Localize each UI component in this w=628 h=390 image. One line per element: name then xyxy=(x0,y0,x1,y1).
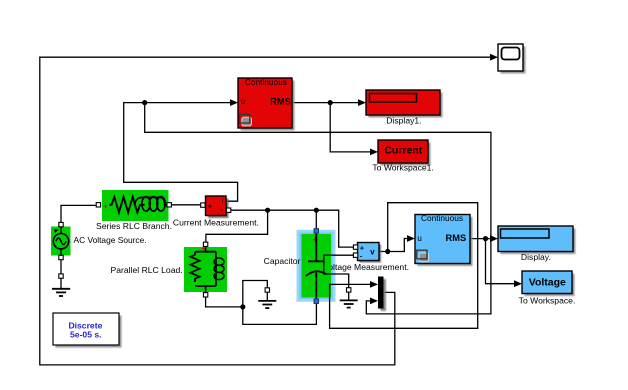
port: ground G3 top xyxy=(59,274,63,278)
svg-text:To Workspace.: To Workspace. xyxy=(519,296,576,306)
svg-text:Capacitor: Capacitor xyxy=(264,256,301,266)
port: Capacitor top (selected navy) xyxy=(314,229,318,233)
svg-text:+: + xyxy=(312,235,318,246)
svg-text:Current Measurement.: Current Measurement. xyxy=(173,217,259,227)
svg-text:u: u xyxy=(417,234,421,243)
arrow: into Display xyxy=(490,235,498,242)
wire: Current Measurement i output up-left to red RMS u input xyxy=(124,103,238,202)
port: Parallel RLC Load bottom xyxy=(203,293,207,297)
svg-text:Parallel RLC Load.: Parallel RLC Load. xyxy=(111,265,183,275)
svg-text:AC Voltage Source.: AC Voltage Source. xyxy=(74,235,147,245)
mux MUX1 (black bar) xyxy=(378,277,386,312)
svg-text:To Workspace1.: To Workspace1. xyxy=(372,162,433,172)
arrow: into Current xyxy=(370,149,378,156)
svg-text:Continuous: Continuous xyxy=(421,213,463,223)
wire: junction J4 branch down to Current To-Workspace xyxy=(330,103,371,152)
port: Series RLC Branch right xyxy=(167,203,171,207)
svg-text:Voltage: Voltage xyxy=(529,277,566,289)
wire: junction J6 branch down to Voltage To-Workspace xyxy=(486,239,515,284)
ground G3 (below AC Voltage Source) xyxy=(52,278,70,296)
capacitor C1 (green block, selected) xyxy=(264,233,331,299)
port: Series RLC Branch left xyxy=(96,203,100,207)
junction J3 (current signal split) xyxy=(142,100,147,105)
block: Display (blue display) xyxy=(498,226,576,262)
sensor: Current Measurement (red block) xyxy=(173,196,259,227)
port: AC source + (top) xyxy=(59,222,63,226)
wire: mux output to Scope (long loop left-bottom-top) xyxy=(40,57,491,365)
port: ground G1 top xyxy=(265,288,269,292)
sensor: Voltage Measurement block (blue) xyxy=(358,243,382,263)
block U2: blue discrete RMS (Continuous) xyxy=(415,213,473,266)
port: Parallel RLC Load top xyxy=(203,242,207,246)
port: AC source - (bottom) xyxy=(59,255,63,259)
wire: junction J1 branch down-left to Parallel RLC Load top port xyxy=(206,210,268,242)
arrow: into Mux input 1 xyxy=(370,281,378,288)
port: Capacitor bottom (selected navy) xyxy=(314,299,318,303)
svg-text:Display.: Display. xyxy=(521,252,551,262)
svg-text:u: u xyxy=(241,97,245,106)
ground G1 (right of Parallel RLC Load) xyxy=(258,292,276,308)
port: Current Measurement - (right) xyxy=(226,208,230,212)
wire: Series RLC Branch right port to Current Measurement + port xyxy=(171,204,200,206)
svg-text:v: v xyxy=(370,248,375,257)
wire: Current Measurement - port right to Voltage Measurement + port xyxy=(231,210,354,247)
arrow: into Scope xyxy=(490,54,498,61)
block: Display1 (red display) xyxy=(366,90,443,125)
wire: Voltage Measurement - port left-down to ground G2 xyxy=(324,255,354,288)
svg-text:Display1.: Display1. xyxy=(386,115,421,125)
source V1: AC Voltage Source (green) xyxy=(51,227,147,256)
wire: blue RMS output to Display xyxy=(470,238,491,240)
junction J4 (red RMS out split) xyxy=(328,100,333,105)
port: Voltage Measurement - xyxy=(353,253,357,257)
wire: junction J7 down-right to Capacitor bottom port xyxy=(243,303,317,325)
wire: AC source - terminal down to ground G3 xyxy=(60,257,62,274)
arrow: into Voltage xyxy=(514,280,522,287)
block U1: red discrete RMS (Continuous) xyxy=(238,77,295,130)
svg-text:+: + xyxy=(103,200,108,210)
block: powergui Discrete 5e-05 s xyxy=(53,313,122,348)
svg-text:Continuous: Continuous xyxy=(245,77,287,87)
arrow: into red RMS u xyxy=(230,99,238,106)
svg-text:Series RLC Branch.: Series RLC Branch. xyxy=(96,221,172,231)
wire: junction J3 branch down-right-down to Mux input 2 xyxy=(145,103,491,314)
junction J7 (bottom net) xyxy=(240,304,245,309)
arrow: into Mux input 2 xyxy=(370,298,378,305)
port: Current Measurement + (left) xyxy=(201,203,205,207)
junction J2 (capacitor top net) xyxy=(314,208,319,213)
component: Series RLC Branch (green block, R + L) xyxy=(96,190,172,231)
arrow: into Display1 xyxy=(358,99,366,106)
scope block Scope xyxy=(498,44,526,74)
wire: Voltage Measurement v output to blue RMS u input xyxy=(379,239,408,252)
wire: junction J7 up-right to ground G1 xyxy=(243,281,267,307)
wire: red RMS output to Display1 xyxy=(292,102,359,104)
wire: junction J5 v-signal detour loop to Mux input 1 xyxy=(330,203,478,329)
svg-text:5e-05 s.: 5e-05 s. xyxy=(70,329,102,339)
component: Parallel RLC Load (green block, R ∥ L) xyxy=(111,244,227,292)
wire: junction J2 down to Capacitor top port xyxy=(315,210,317,229)
capacitor C1 selection halo xyxy=(297,230,336,302)
svg-text:+: + xyxy=(208,202,213,211)
svg-text:RMS: RMS xyxy=(446,233,467,243)
wire: Parallel RLC Load bottom port to junction J7 xyxy=(206,297,243,307)
port: ground G2 top xyxy=(347,288,351,292)
ground G2 (left of mux) xyxy=(340,292,358,308)
block: Voltage (To Workspace, blue) xyxy=(519,271,576,306)
port: Voltage Measurement + xyxy=(353,245,357,249)
arrow: into blue RMS u xyxy=(407,235,415,242)
block: Current (To Workspace1, red) xyxy=(372,140,433,172)
junction J1 (CM - net / parallel load) xyxy=(265,208,270,213)
svg-text:Voltage Measurement.: Voltage Measurement. xyxy=(323,262,409,272)
svg-text:Current: Current xyxy=(384,145,422,157)
junction J5 (v signal split) xyxy=(385,249,390,254)
svg-text:RMS: RMS xyxy=(270,96,291,106)
junction J6 (blue RMS out split) xyxy=(483,236,488,241)
wire: AC source + terminal up to Series RLC Branch left port xyxy=(61,205,96,225)
